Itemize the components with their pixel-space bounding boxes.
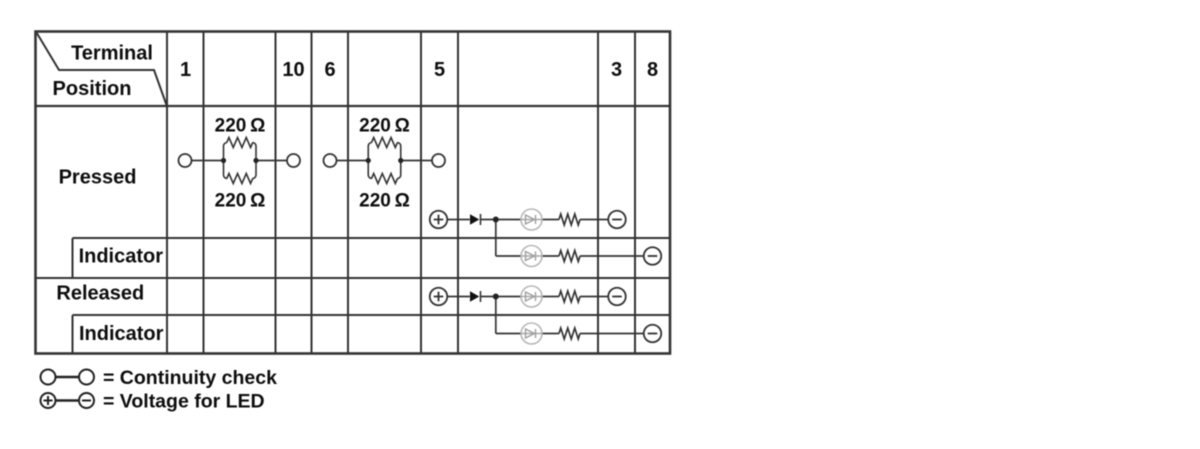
svg-text:1: 1 [180, 59, 191, 81]
svg-text:220 Ω: 220 Ω [359, 116, 410, 137]
svg-text:Terminal: Terminal [71, 43, 153, 65]
svg-text:220 Ω: 220 Ω [215, 116, 266, 137]
svg-text:Pressed: Pressed [59, 167, 137, 189]
svg-text:5: 5 [434, 59, 445, 81]
svg-text:6: 6 [324, 59, 335, 81]
svg-text:= Voltage for LED: = Voltage for LED [103, 391, 265, 413]
svg-text:8: 8 [647, 59, 658, 81]
svg-text:3: 3 [611, 59, 622, 81]
svg-text:220 Ω: 220 Ω [215, 191, 266, 212]
svg-text:220 Ω: 220 Ω [359, 191, 410, 212]
svg-text:Indicator: Indicator [79, 246, 164, 268]
svg-text:10: 10 [282, 59, 304, 81]
svg-text:= Continuity check: = Continuity check [103, 367, 277, 389]
svg-text:Released: Released [56, 283, 144, 305]
svg-text:Indicator: Indicator [79, 323, 164, 345]
svg-text:Position: Position [53, 78, 132, 100]
